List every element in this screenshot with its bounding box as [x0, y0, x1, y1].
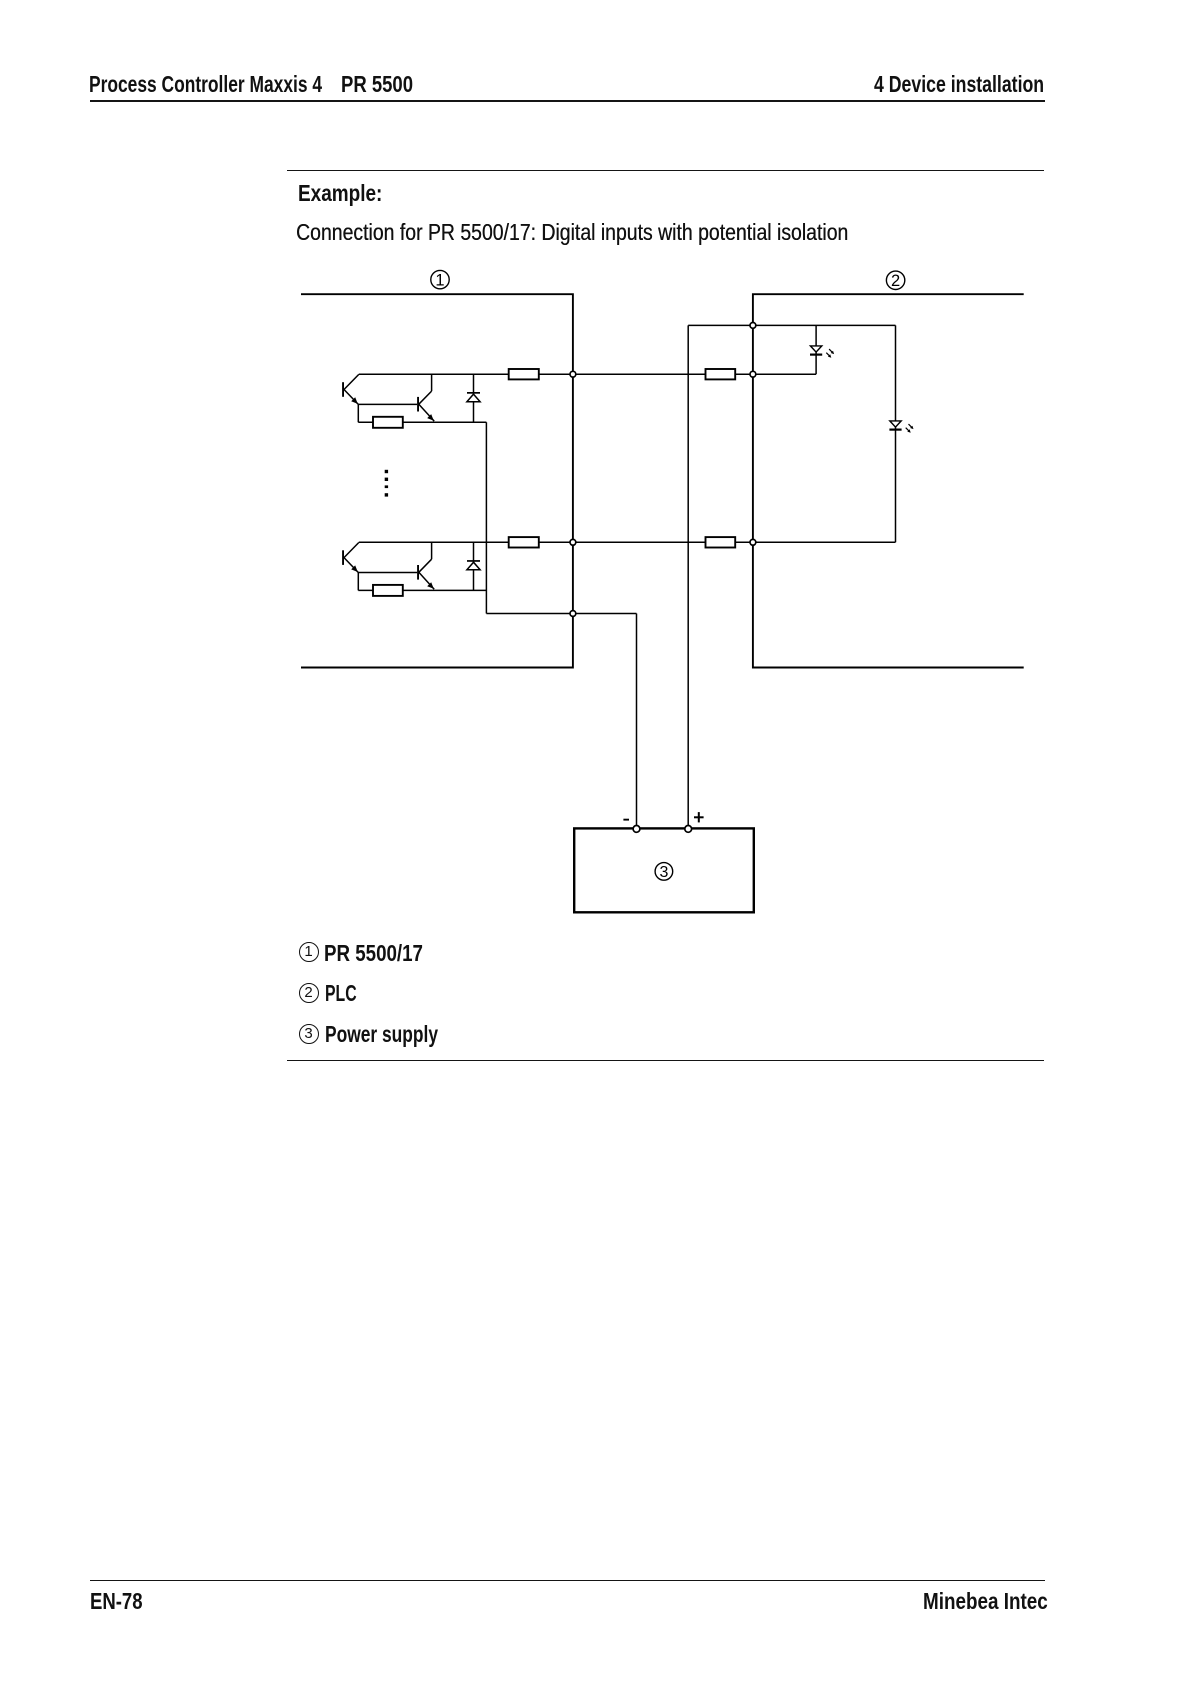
footer rule [90, 1580, 1045, 1581]
resistor: series resistor at PLC side (channel 2) [706, 537, 736, 547]
legend item 1 circle [299, 942, 319, 962]
terminal: channel 2 at PLC edge [750, 539, 756, 545]
diode: protection diode (channel 2) [467, 542, 480, 590]
legend item 3 circle [299, 1024, 319, 1044]
transistor Q4 (output transistor, channel 2) [417, 542, 434, 589]
resistor: input series resistor inside device 1 (channel 2) [509, 537, 539, 547]
wire: channel 1 output drop to common line [485, 422, 487, 613]
terminal: plus bus at PLC edge [750, 323, 756, 329]
svg-text:3: 3 [659, 864, 668, 881]
wire: base node drop to resistor line (channel 1) [357, 404, 359, 422]
caption line [296, 221, 848, 244]
resistor: base-emitter resistor (channel 2) [373, 585, 403, 596]
wire: input line channel 1 [359, 373, 816, 375]
device 2 outline: PLC block [753, 294, 1024, 667]
resistor: input series resistor inside device 1 (channel 1) [509, 369, 539, 379]
wire: emitter/output line (channel 1) [358, 421, 486, 423]
wire: input line channel 2 [359, 541, 896, 543]
Example: heading [298, 182, 382, 205]
LED D1 (PLC input indicator, channel 1) [810, 346, 834, 358]
wire: Q1 emitter to Q2 base (channel 1) [358, 403, 417, 405]
wire: LED branch channel 1 [815, 325, 817, 374]
wire: minus lead down to power supply [636, 614, 638, 827]
header left text [89, 73, 322, 96]
legend item 2 circle [299, 983, 319, 1003]
footer left [90, 1590, 143, 1613]
terminal: channel 1 at device 1 edge [570, 371, 576, 377]
resistor: base-emitter resistor (channel 1) [373, 417, 403, 428]
wire: LED branch channel 2 [895, 325, 897, 542]
header right text [874, 73, 1044, 96]
terminal: common at device 1 edge [570, 611, 576, 617]
wire: Q3 emitter to Q4 base (channel 2) [358, 572, 417, 574]
svg-text:1: 1 [435, 271, 444, 289]
terminal: power supply plus [685, 826, 692, 833]
legend bottom rule [287, 1060, 1044, 1061]
label circle 3 (power supply) [655, 863, 673, 882]
terminal: power supply minus [633, 826, 640, 833]
header rule [90, 100, 1045, 101]
wire: common line to common terminal [486, 613, 636, 615]
wire: emitter/output line (channel 2) [358, 589, 486, 591]
wire: plus lead down to power supply [687, 325, 689, 826]
label: plus sign [694, 812, 704, 822]
optocoupler channel 2: phototransistor Q3 [342, 543, 359, 573]
label circle 1 (PR 5500/17) [431, 270, 449, 289]
diode: protection diode (channel 1) [467, 374, 480, 422]
label: minus sign [623, 819, 629, 821]
svg-text:2: 2 [891, 272, 900, 290]
footer right [923, 1590, 1048, 1613]
resistor: series resistor at PLC side (channel 1) [706, 369, 736, 379]
wire: base node drop to resistor line (channel 2) [357, 573, 359, 591]
ellipsis dots: more channels indicator [385, 470, 388, 497]
label circle 2 (PLC) [886, 271, 904, 290]
example box top rule [287, 170, 1044, 171]
power supply box [574, 828, 754, 912]
LED D2 (PLC input indicator, channel 2) [889, 421, 913, 433]
terminal: channel 2 at device 1 edge [570, 539, 576, 545]
transistor Q2 (output transistor, channel 1) [417, 374, 434, 421]
optocoupler channel 1: phototransistor Q1 [342, 374, 359, 404]
device 1 outline: PR 5500/17 block [301, 294, 573, 667]
wire: top plus bus inside PLC [688, 324, 895, 326]
terminal: channel 1 at PLC edge [750, 371, 756, 377]
